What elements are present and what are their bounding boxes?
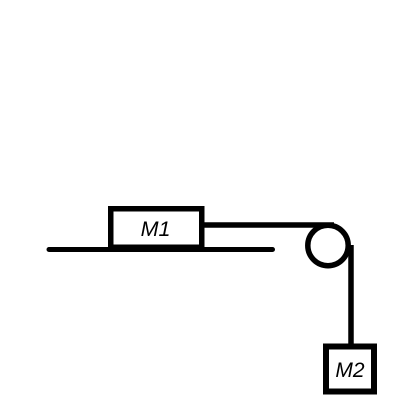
- block M1: [111, 209, 202, 248]
- block M2: [326, 347, 374, 392]
- rope from pulley to M2: [348, 245, 354, 346]
- pulley: [308, 225, 348, 265]
- rope from M1 to pulley: [202, 222, 334, 228]
- table surface line: [49, 247, 273, 252]
- svg-text:M2: M2: [335, 359, 364, 382]
- svg-text:M1: M1: [141, 217, 171, 241]
